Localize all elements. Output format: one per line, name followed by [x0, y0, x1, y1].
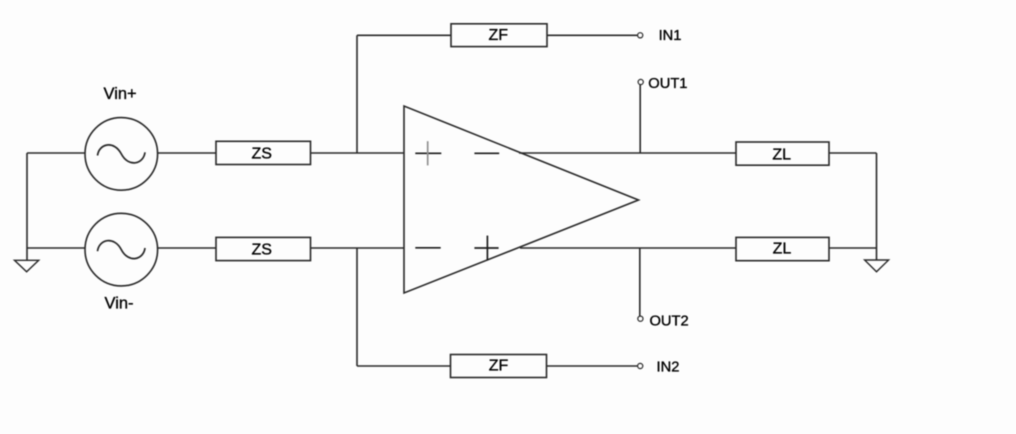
wire bottom rail left	[27, 247, 85, 249]
wire to ZF (bottom-left)	[357, 365, 451, 367]
op-amp - (bottom input)	[415, 247, 440, 249]
svg-text:IN2: IN2	[657, 359, 680, 375]
op-amp + (bottom output)	[474, 236, 498, 261]
terminal OUT1	[638, 79, 643, 84]
svg-text:ZL: ZL	[772, 147, 791, 164]
wire OUT1 stub	[639, 85, 641, 153]
svg-text:Vin-: Vin-	[105, 294, 134, 312]
wire feedback vertical (bottom)	[356, 248, 358, 366]
op-amp U1	[404, 106, 639, 293]
terminal IN1	[638, 33, 643, 38]
svg-text:OUT1: OUT1	[648, 76, 687, 92]
resistor ZS (bottom)	[216, 237, 311, 260]
resistor ZS (top)	[216, 141, 311, 164]
wire to ZF (top-left)	[357, 34, 451, 36]
svg-text:ZF: ZF	[489, 358, 509, 375]
wire ZL to right rail (top)	[829, 152, 877, 154]
wire ZS to op-amp (bottom input rail)	[311, 247, 405, 249]
wire feedback vertical (top)	[356, 35, 358, 153]
svg-text:Vin+: Vin+	[104, 85, 137, 103]
wire bottom output rail	[520, 247, 736, 249]
svg-text:ZS: ZS	[251, 242, 271, 259]
source Vin-	[85, 213, 158, 286]
wire ZF to IN1	[547, 34, 637, 36]
wire source to ZS (top)	[158, 152, 216, 154]
resistor ZF (top)	[451, 24, 547, 47]
resistor ZL (top)	[736, 142, 829, 165]
wire left vertical	[26, 153, 28, 261]
svg-text:OUT2: OUT2	[650, 314, 689, 330]
svg-text:IN1: IN1	[659, 28, 682, 44]
wire top rail left	[27, 152, 85, 154]
wire OUT2 stub	[639, 248, 641, 316]
source Vin+	[85, 118, 158, 191]
wire ZL to right rail (bottom)	[829, 247, 877, 249]
wire ZF to IN2	[547, 365, 638, 367]
wire right vertical	[876, 153, 878, 260]
wire top output rail	[519, 152, 736, 154]
svg-text:ZS: ZS	[251, 146, 271, 163]
terminal IN2	[638, 363, 643, 368]
wire ZS to op-amp (top input rail)	[311, 152, 405, 154]
op-amp + (top input)	[415, 141, 441, 165]
ground (left)	[15, 260, 39, 272]
resistor ZL (bottom)	[736, 237, 829, 260]
svg-text:ZF: ZF	[489, 27, 509, 44]
svg-text:ZL: ZL	[773, 241, 792, 258]
wire source to ZS (bottom)	[158, 247, 216, 249]
resistor ZF (bottom)	[451, 355, 547, 378]
ground (right)	[865, 260, 889, 272]
terminal OUT2	[638, 316, 643, 321]
op-amp - (top output)	[474, 152, 499, 154]
